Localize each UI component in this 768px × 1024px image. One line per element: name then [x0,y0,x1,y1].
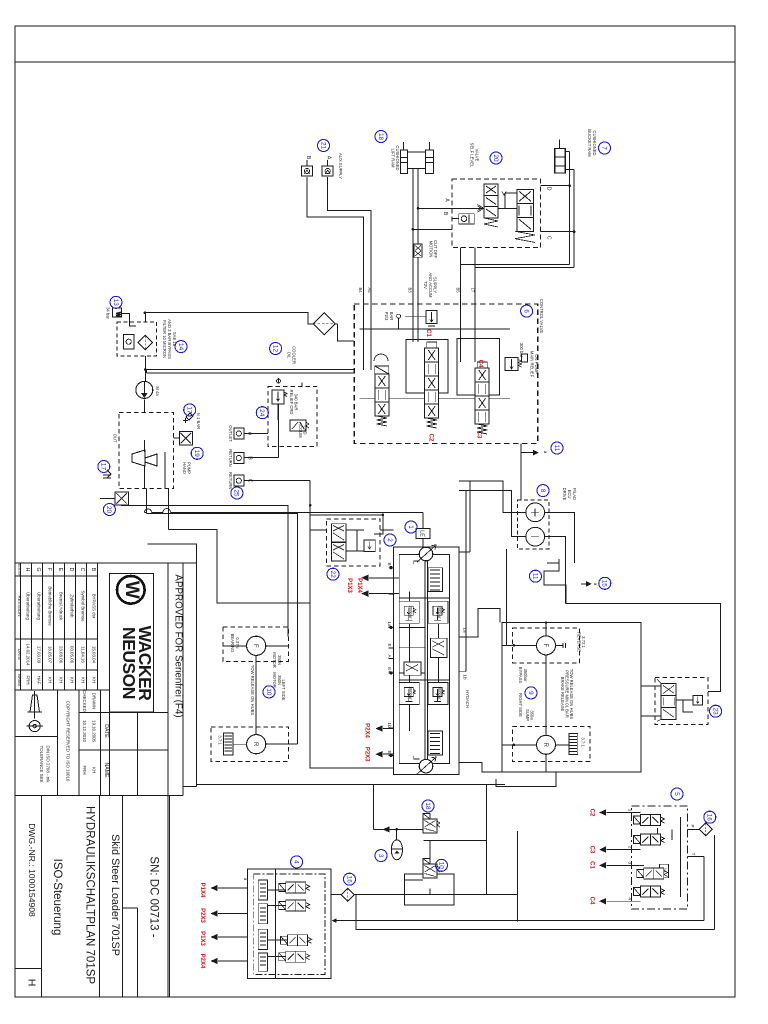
svg-text:CONTROL VALVE: CONTROL VALVE [539,299,544,334]
svg-text:3.7:1: 3.7:1 [218,735,223,745]
svg-text:23: 23 [711,708,718,716]
svg-text:OIL: OIL [287,352,292,359]
svg-text:BYPASS: BYPASS [518,667,523,684]
svg-text:350N: 350N [277,655,282,665]
svg-text:13: 13 [112,299,119,307]
svg-text:F: F [542,644,548,648]
svg-text:1: 1 [407,525,414,529]
svg-text:TOW RELEASE ON HUBS: TOW RELEASE ON HUBS [250,665,255,716]
svg-text:H: H [25,979,37,987]
svg-text:1a: 1a [462,627,467,633]
svg-text:OUTLET: OUTLET [228,425,233,442]
svg-text:LE: LE [419,530,425,537]
svg-text:2: 2 [628,846,633,849]
svg-text:AUX SUPPLY: AUX SUPPLY [338,153,343,179]
svg-text:BEARING: BEARING [230,634,235,653]
svg-text:a: a [543,451,548,454]
svg-text:A: A [326,156,332,160]
svg-text:SUMP: SUMP [525,709,530,721]
svg-text:B: B [442,212,448,216]
svg-text:B5: B5 [456,287,461,293]
svg-text:RETURN: RETURN [228,472,233,489]
svg-text:G: G [35,567,41,571]
svg-text:21: 21 [319,142,326,150]
svg-text:1a: 1a [387,621,392,627]
svg-text:C: C [79,568,85,572]
svg-text:B3: B3 [408,287,413,293]
svg-text:N1: N1 [663,868,667,873]
svg-text:M 4a: M 4a [155,386,160,396]
svg-text:MOTOR: MOTOR [272,652,277,668]
svg-text:B: B [90,568,96,572]
svg-text:RETURN: RETURN [228,449,233,466]
svg-text:6: 6 [522,309,529,313]
svg-text:PUMP: PUMP [187,462,192,474]
svg-text:2: 2 [386,538,393,542]
svg-text:CRD: CRD [303,425,308,434]
svg-text:P1X4: P1X4 [356,578,362,593]
svg-text:8: 8 [539,489,546,493]
svg-text:15.03.04: 15.03.04 [92,646,97,664]
svg-text:DIN ISO 2768 - mk: DIN ISO 2768 - mk [46,745,51,783]
svg-text:20: 20 [492,154,499,162]
svg-text:200bar: 200bar [408,605,413,619]
svg-text:P1X4: P1X4 [199,883,205,898]
svg-text:SN: DC 00713 -: SN: DC 00713 - [148,856,160,937]
svg-text:N 1 BAR: N 1 BAR [196,413,201,429]
svg-text:WACKER: WACKER [135,626,155,702]
svg-text:P2X3: P2X3 [364,747,370,762]
svg-text:P1X3: P1X3 [199,931,205,946]
svg-text:F: F [46,568,52,571]
svg-text:Überarbeitung: Überarbeitung [26,592,31,620]
svg-text:DATE: DATE [103,724,109,738]
svg-text:P2X3: P2X3 [199,908,205,923]
svg-text:11: 11 [553,445,560,452]
svg-text:REVISION: REVISION [17,596,22,617]
svg-text:APPROVED FOR Serienfrei (F4): APPROVED FOR Serienfrei (F4) [173,574,184,717]
svg-text:KH: KH [92,677,97,683]
svg-text:C1: C1 [425,329,431,337]
svg-text:KH: KH [59,677,64,683]
svg-text:BYPASS dsr: BYPASS dsr [92,594,97,619]
svg-text:FRH: FRH [82,765,87,774]
svg-text:CUSHIONED: CUSHIONED [395,145,400,170]
svg-text:A: A [387,654,392,658]
svg-text:7: 7 [600,146,607,150]
svg-text:ON PUMP: ON PUMP [534,354,539,374]
svg-text:4: 4 [292,860,299,864]
svg-text:C2: C2 [428,434,434,442]
svg-text:NAME: NAME [103,763,109,779]
svg-text:C3: C3 [476,431,482,439]
svg-text:P2/3: P2/3 [384,312,389,321]
svg-text:16: 16 [706,814,713,822]
svg-text:RIGHT SIDE: RIGHT SIDE [518,693,523,717]
svg-text:19: 19 [193,450,200,458]
svg-text:TOLERANCE SEE: TOLERANCE SEE [39,746,44,783]
svg-text:300 bar: 300 bar [519,343,524,358]
svg-text:LEFT SIDE: LEFT SIDE [281,679,286,700]
svg-text:5: 5 [673,792,680,796]
svg-text:OUT: OUT [113,434,118,443]
svg-text:HYDACH: HYDACH [465,690,470,708]
svg-text:9: 9 [527,691,534,695]
svg-text:03.05.06: 03.05.06 [70,646,75,664]
svg-text:SAE 10: SAE 10 [172,332,177,347]
svg-text:ISO-Steuerung: ISO-Steuerung [51,859,63,936]
svg-text:R: R [542,743,548,748]
svg-text:DRAWN: DRAWN [92,693,97,709]
svg-text:3: 3 [377,854,384,858]
svg-text:SELF LEVEL: SELF LEVEL [470,143,475,168]
svg-text:RELIEF CRD: RELIEF CRD [289,390,294,415]
svg-text:COPYRIGHT RESERVED TO ISO 1601: COPYRIGHT RESERVED TO ISO 16016 [66,701,71,782]
svg-text:23.08.06: 23.08.06 [59,646,64,664]
svg-text:SUPPLY: SUPPLY [433,277,438,293]
svg-text:T: T [691,853,696,856]
svg-text:CHECKED: CHECKED [82,690,87,711]
svg-text:22: 22 [329,571,336,579]
svg-text:C1: C1 [589,861,595,869]
svg-text:COOLER: COOLER [292,346,297,364]
svg-text:DATE: DATE [17,649,22,660]
svg-text:12: 12 [271,345,278,353]
svg-text:P: P [690,824,695,827]
svg-text:TOW RELEASE ON HUBS: TOW RELEASE ON HUBS [569,669,574,720]
svg-text:ACCUM: ACCUM [298,422,303,438]
svg-text:CUSHIONED: CUSHIONED [592,130,597,155]
svg-text:11: 11 [531,573,538,580]
svg-text:E+: E+ [387,667,392,673]
svg-text:R: R [252,742,258,747]
svg-text:19.10.2005: 19.10.2005 [92,720,97,743]
svg-text:200bar: 200bar [437,605,442,619]
svg-text:D: D [545,187,551,191]
svg-text:350bar: 350bar [437,686,442,700]
svg-text:AND 3 BAR BYPASS: AND 3 BAR BYPASS [167,319,172,359]
svg-text:C3: C3 [589,846,595,854]
svg-text:C: C [545,236,551,240]
svg-text:MOTOR: MOTOR [272,672,277,688]
svg-text:E: E [57,568,63,572]
svg-text:HAF: HAF [37,676,42,685]
svg-text:PRESSURE MIN 01 BAR: PRESSURE MIN 01 BAR [565,670,570,717]
svg-text:11.04.16: 11.04.16 [81,646,86,663]
svg-text:17.03.09: 17.03.09 [37,646,42,664]
svg-text:KH: KH [92,767,97,773]
svg-text:1: 1 [628,809,633,812]
svg-text:16: 16 [345,876,352,884]
svg-text:Skid Steer Loader 701SP: Skid Steer Loader 701SP [109,834,121,956]
svg-text:A: A [443,198,449,202]
svg-text:KH: KH [81,677,86,683]
svg-text:BRAKE RELEASE: BRAKE RELEASE [560,677,565,712]
svg-text:NAME: NAME [17,674,22,687]
svg-text:HAND: HAND [182,462,187,474]
svg-text:34 bar: 34 bar [106,307,111,319]
svg-text:10: 10 [265,688,272,696]
svg-text:HYDRAULIKSCHALTPLAN 701SP: HYDRAULIKSCHALTPLAN 701SP [84,806,96,984]
svg-text:MAIN RELIEF: MAIN RELIEF [530,351,535,378]
svg-text:CUT OFF: CUT OFF [433,240,438,259]
svg-text:A: A [247,432,253,436]
svg-text:LT: LT [471,288,476,293]
svg-text:0.37N: 0.37N [235,637,240,648]
svg-text:3: 3 [628,862,633,865]
svg-text:Betriebliche Bremse: Betriebliche Bremse [48,586,53,626]
svg-text:Zylinderhub: Zylinderhub [70,595,75,618]
svg-text:P2X4: P2X4 [199,954,205,969]
svg-text:10.12.2010: 10.12.2010 [82,720,87,743]
svg-text:DRIVE: DRIVE [562,488,567,501]
svg-text:14.02.2014: 14.02.2014 [26,644,31,667]
svg-text:Symbol Bremse: Symbol Bremse [81,591,86,623]
svg-text:18: 18 [424,802,431,810]
svg-text:18: 18 [377,133,384,141]
svg-text:1b: 1b [462,674,467,680]
svg-text:Bremsl.+druck: Bremsl.+druck [59,592,64,621]
svg-text:25: 25 [233,489,240,497]
svg-text:D: D [68,568,74,572]
svg-text:ECU: ECU [567,490,572,499]
svg-text:B: B [387,562,392,565]
svg-text:a: a [593,583,598,586]
svg-text:KH: KH [70,677,75,683]
svg-text:17: 17 [100,463,107,471]
svg-text:B: B [247,456,253,460]
svg-text:C4: C4 [477,360,483,368]
svg-text:REVERSE: REVERSE [577,632,582,652]
svg-text:C: C [247,479,253,483]
svg-text:H: H [24,568,30,572]
svg-text:P2X4: P2X4 [364,723,370,738]
svg-text:W: W [115,312,121,317]
svg-text:3.7:1: 3.7:1 [581,737,586,747]
svg-text:17: 17 [185,406,192,414]
svg-text:BAR: BAR [389,312,394,321]
svg-text:C2: C2 [589,809,595,817]
svg-text:FILTER 10 MICRON: FILTER 10 MICRON [162,320,167,358]
svg-text:20: 20 [105,506,112,514]
svg-text:DWG.-NR.: 1000154908: DWG.-NR.: 1000154908 [27,823,37,917]
svg-text:350bar: 350bar [408,686,413,700]
svg-text:B: B [305,156,311,160]
svg-text:AND ACCUM: AND ACCUM [428,272,433,298]
svg-text:FRH: FRH [26,675,31,684]
svg-text:18.05.07: 18.05.07 [48,646,53,664]
svg-text:10: 10 [437,862,444,870]
svg-text:350a: 350a [530,710,535,720]
svg-text:C4: C4 [589,897,595,905]
svg-text:E: E [387,750,392,753]
svg-text:REV.NR: REV.NR [17,563,21,577]
svg-text:350bar: 350bar [523,668,528,682]
svg-text:BUCKET RAM: BUCKET RAM [587,129,592,157]
svg-text:B4: B4 [358,287,363,293]
svg-text:1b: 1b [387,722,392,728]
svg-text:a: a [243,878,248,881]
svg-text:W: W [121,581,142,599]
svg-text:VALVE: VALVE [475,149,480,162]
svg-text:4: 4 [628,897,633,900]
svg-text:F: F [252,644,258,648]
svg-text:P1X3: P1X3 [346,578,352,593]
svg-text:MOTION: MOTION [429,241,434,258]
svg-text:Überarbeitung: Überarbeitung [37,592,42,620]
svg-text:24: 24 [258,409,265,417]
svg-text:KH: KH [48,677,53,683]
svg-text:340 BAR: 340 BAR [294,394,299,411]
svg-text:E: E [387,643,392,646]
svg-text:A5: A5 [367,287,372,293]
svg-text:15: 15 [601,580,608,588]
svg-text:T2V: T2V [423,281,428,289]
svg-text:LIFT RAM: LIFT RAM [391,148,396,168]
svg-text:P/LAD: P/LAD [572,488,577,500]
svg-text:3.72:1: 3.72:1 [581,636,586,648]
